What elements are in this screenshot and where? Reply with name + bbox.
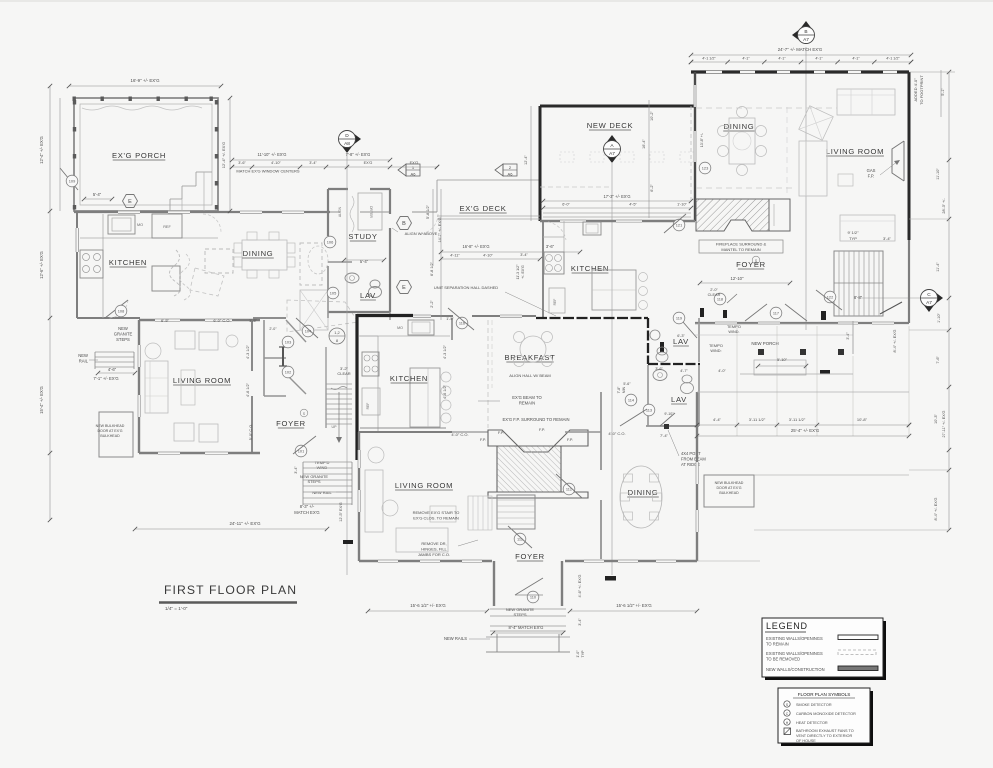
svg-text:CARBON MONOXIDE DETECTOR: CARBON MONOXIDE DETECTOR	[796, 712, 856, 716]
svg-text:F.P.: F.P.	[567, 438, 573, 442]
new wall: kitchen right top	[536, 317, 648, 319]
svg-text:NEW PORCH: NEW PORCH	[751, 341, 778, 346]
svg-text:4'-11": 4'-11"	[450, 254, 460, 258]
vertical dims mid	[432, 189, 434, 266]
svg-text:JAMBS FOR C.O.: JAMBS FOR C.O.	[418, 552, 450, 557]
middle lav upper	[650, 330, 660, 340]
svg-text:D: D	[345, 133, 349, 139]
dim porch top	[69, 85, 221, 87]
svg-text:15'-4" +/- EX'G: 15'-4" +/- EX'G	[39, 386, 44, 414]
svg-text:OF HOUSE: OF HOUSE	[796, 739, 816, 743]
floor plan symbols box	[781, 691, 873, 746]
svg-text:6'-2": 6'-2"	[650, 184, 654, 192]
wall: bottom house top	[359, 431, 452, 433]
wall: bottom house east	[696, 392, 698, 561]
svg-text:2'-0": 2'-0"	[269, 327, 277, 331]
svg-text:11'-10": 11'-10"	[936, 168, 940, 180]
porch steps SE corner	[169, 199, 171, 212]
svg-text:A8: A8	[344, 141, 350, 147]
svg-text:REMOVE DR,: REMOVE DR,	[421, 541, 446, 546]
svg-text:REF: REF	[366, 403, 370, 410]
svg-text:3'-6": 3'-6"	[238, 161, 246, 165]
svg-text:DINING: DINING	[243, 249, 274, 258]
wall: bottom house west	[358, 432, 360, 561]
dims above north wall	[232, 159, 390, 161]
svg-text:MIN: MIN	[622, 386, 626, 393]
svg-text:A7: A7	[803, 37, 809, 43]
svg-text:103: 103	[285, 340, 292, 345]
svg-text:EXISTING WALLS/OPENINGS: EXISTING WALLS/OPENINGS	[766, 636, 823, 641]
svg-text:LEGEND: LEGEND	[766, 621, 808, 631]
dims exg deck	[441, 251, 580, 253]
svg-text:12'-4": 12'-4"	[524, 155, 528, 165]
dim right of porch	[229, 98, 231, 211]
svg-text:NEW BULKHEAD: NEW BULKHEAD	[96, 424, 125, 428]
svg-text:5'-10": 5'-10"	[777, 357, 788, 362]
svg-text:REMOVE EX'G STAIR TO: REMOVE EX'G STAIR TO	[413, 510, 460, 515]
svg-text:REMAIN: REMAIN	[519, 401, 535, 406]
svg-text:4'-0": 4'-0"	[718, 369, 726, 373]
svg-text:3'-11 1/2": 3'-11 1/2"	[789, 417, 806, 422]
svg-text:117: 117	[773, 311, 779, 316]
svg-text:BREAKFAST: BREAKFAST	[504, 353, 555, 362]
svg-text:STEPS: STEPS	[513, 612, 526, 617]
svg-text:EX'G DECK: EX'G DECK	[460, 204, 507, 213]
svg-text:8'-4" +/- EX'G: 8'-4" +/- EX'G	[934, 497, 938, 520]
svg-text:TYP: TYP	[849, 236, 857, 241]
svg-text:3'-4": 3'-4"	[846, 332, 850, 340]
svg-text:REF: REF	[163, 225, 171, 229]
dims at entry	[368, 610, 487, 612]
svg-text:8'-8": 8'-8"	[854, 295, 863, 300]
svg-text:BULKHEAD: BULKHEAD	[100, 434, 120, 438]
svg-text:123: 123	[702, 166, 709, 171]
room LIVING ROOM left	[139, 319, 260, 321]
circle 1,2/8	[329, 328, 345, 344]
entry foyer bump	[493, 561, 495, 606]
svg-text:3'-4": 3'-4"	[578, 618, 582, 626]
flag 2/A6	[495, 164, 503, 176]
svg-text:10'-3": 10'-3"	[934, 414, 938, 424]
right mid extension lines	[697, 391, 909, 393]
svg-text:112: 112	[566, 487, 572, 492]
extension lines for dim chain	[736, 326, 738, 436]
svg-text:BATHROOM EXHAUST FANS TO: BATHROOM EXHAUST FANS TO	[796, 729, 854, 733]
svg-text:8'-4" MATCH EX'G: 8'-4" MATCH EX'G	[509, 625, 544, 630]
svg-text:NEW: NEW	[78, 353, 88, 358]
svg-text:5'-8 1/2": 5'-8 1/2"	[426, 204, 430, 219]
new wall: lav block	[647, 318, 649, 364]
door swing arcs dashed	[203, 214, 221, 232]
svg-text:CLEAR: CLEAR	[337, 371, 350, 376]
wall: main north wall	[74, 211, 330, 213]
svg-text:11'-4": 11'-4"	[936, 262, 940, 272]
svg-text:BULKHEAD: BULKHEAD	[719, 491, 739, 495]
stairs to remain dashed	[467, 496, 469, 530]
legend box	[765, 621, 886, 680]
wall: foyer-dining divider	[600, 392, 602, 470]
circle 116	[456, 317, 468, 329]
svg-text:3'-4": 3'-4"	[883, 236, 892, 241]
svg-text:MANTEL TO REMAIN: MANTEL TO REMAIN	[721, 247, 760, 252]
svg-text:108: 108	[118, 309, 125, 314]
svg-text:4'-1 1/2": 4'-1 1/2"	[702, 57, 716, 61]
fireplace right	[696, 199, 769, 231]
svg-text:B: B	[804, 29, 807, 35]
svg-text:4'-6 1/2": 4'-6 1/2"	[443, 384, 447, 399]
svg-text:RAIL: RAIL	[79, 359, 89, 364]
fridge	[362, 388, 380, 415]
svg-text:KITCHEN: KITCHEN	[390, 374, 428, 383]
bulkhead right	[704, 475, 754, 507]
svg-text:109: 109	[69, 179, 76, 184]
svg-text:DOOR AT EX'G: DOOR AT EX'G	[97, 429, 122, 433]
svg-text:6'-8 1/2": 6'-8 1/2"	[430, 261, 434, 276]
svg-text:4'-1": 4'-1"	[815, 57, 823, 61]
svg-text:UNIT SEPARATION HALL DASHED: UNIT SEPARATION HALL DASHED	[434, 285, 498, 290]
closet door panels	[282, 347, 284, 366]
room KITCHEN left	[76, 212, 78, 318]
svg-text:10'-8": 10'-8"	[857, 417, 868, 422]
svg-text:TEMP'D: TEMP'D	[727, 325, 741, 329]
svg-text:TO REMAIN: TO REMAIN	[766, 642, 789, 647]
range middle	[362, 352, 379, 376]
svg-text:MO: MO	[137, 223, 143, 227]
wall: right house north	[691, 70, 909, 73]
fridge REF	[152, 214, 182, 238]
svg-text:5'-1": 5'-1"	[941, 88, 945, 96]
hex markers	[123, 195, 138, 208]
svg-text:1'-5": 1'-5"	[249, 318, 258, 323]
svg-text:3'-6": 3'-6"	[546, 244, 555, 249]
svg-text:A6: A6	[508, 172, 514, 177]
fireplace bottom	[488, 430, 588, 498]
middle lav lower	[647, 365, 649, 426]
svg-text:WIND:: WIND:	[710, 349, 721, 353]
room KITCHEN middle	[359, 431, 377, 433]
svg-text:3'-11 1/2": 3'-11 1/2"	[749, 417, 766, 422]
svg-text:TO FOOTPRINT: TO FOOTPRINT	[919, 75, 924, 105]
room STUDY	[328, 188, 348, 190]
svg-text:16'-4": 16'-4"	[642, 139, 646, 149]
svg-text:C: C	[927, 292, 931, 298]
svg-text:12'-4" +/- EX'G: 12'-4" +/- EX'G	[39, 136, 44, 164]
svg-text:LIVING ROOM: LIVING ROOM	[395, 481, 453, 490]
svg-text:7'-6": 7'-6"	[936, 356, 940, 364]
svg-text:F.P.: F.P.	[539, 428, 545, 432]
svg-text:6'-0" C.O.: 6'-0" C.O.	[213, 318, 230, 323]
svg-text:12'-10": 12'-10"	[731, 276, 745, 281]
bulkhead left	[99, 412, 133, 457]
angled walls foyer	[286, 320, 306, 342]
svg-text:VENT DIRECTLY TO EXTERIOR: VENT DIRECTLY TO EXTERIOR	[796, 734, 852, 738]
furniture left living room	[145, 361, 168, 413]
section line C	[923, 304, 935, 312]
svg-text:5'-4": 5'-4"	[93, 192, 102, 197]
svg-text:10'-2": 10'-2"	[650, 111, 654, 121]
svg-text:4'-1": 4'-1"	[852, 57, 860, 61]
svg-text:HINGES, FILL: HINGES, FILL	[421, 547, 447, 552]
closets left of stairs	[253, 317, 286, 319]
svg-text:NEW DECK: NEW DECK	[587, 121, 634, 130]
wall: right house west	[694, 72, 696, 221]
svg-text:1'-0": 1'-0"	[576, 650, 580, 658]
svg-text:WIND: WIND	[317, 465, 328, 470]
svg-text:FOYER: FOYER	[276, 419, 306, 428]
doors bottom house	[563, 483, 575, 495]
svg-text:GAS: GAS	[867, 168, 876, 173]
svg-text:4'-0" C.O.: 4'-0" C.O.	[608, 431, 625, 436]
dims below right house	[697, 424, 909, 426]
svg-text:4'-10": 4'-10"	[483, 254, 493, 258]
door 108	[105, 300, 128, 318]
svg-text:15'-6 1/2" +/- EX'G: 15'-6 1/2" +/- EX'G	[410, 603, 446, 608]
svg-text:E: E	[402, 285, 406, 291]
svg-text:EXISTING WALLS/OPENINGS: EXISTING WALLS/OPENINGS	[766, 651, 823, 656]
svg-text:REF: REF	[553, 299, 557, 306]
svg-text:4'-3 1/2": 4'-3 1/2"	[443, 344, 447, 359]
svg-text:NEW RAIL: NEW RAIL	[312, 490, 332, 495]
svg-text:102: 102	[285, 370, 292, 375]
svg-text:3'-4": 3'-4"	[294, 466, 298, 474]
svg-text:FROM BEAM: FROM BEAM	[681, 457, 706, 462]
svg-text:17'-3" +/- EX'G: 17'-3" +/- EX'G	[603, 194, 630, 199]
svg-text:15'-6 1/2" +/- EX'G: 15'-6 1/2" +/- EX'G	[616, 603, 652, 608]
svg-text:LIVING ROOM: LIVING ROOM	[826, 147, 884, 156]
svg-text:F.P.: F.P.	[498, 431, 504, 435]
svg-text:7'-1" +/- EX'G: 7'-1" +/- EX'G	[93, 376, 118, 381]
svg-text:4'-0" C.O.: 4'-0" C.O.	[451, 432, 468, 437]
right edge dims	[948, 72, 950, 530]
svg-text:4'-6" +/- EX'G: 4'-6" +/- EX'G	[578, 574, 582, 597]
svg-text:11'-3 1/2": 11'-3 1/2"	[516, 264, 520, 280]
svg-text:STUDY: STUDY	[348, 232, 377, 241]
flag 1/A6	[398, 164, 406, 176]
svg-text:F.P.: F.P.	[868, 174, 875, 179]
closet center	[497, 495, 535, 529]
svg-text:13'-8" +/-: 13'-8" +/-	[700, 132, 704, 147]
svg-text:4'-3 1/2": 4'-3 1/2"	[246, 344, 250, 359]
left stairs	[325, 347, 327, 428]
svg-text:11'-10" +/- EX'G: 11'-10" +/- EX'G	[258, 152, 287, 157]
svg-text:113: 113	[646, 408, 652, 413]
dashed existing features to be removed	[205, 249, 233, 273]
gas fp bump	[892, 141, 904, 181]
wall: right kitchen north	[540, 220, 695, 222]
svg-text:4'-5": 4'-5"	[629, 203, 637, 207]
svg-text:1'-10": 1'-10"	[937, 313, 941, 323]
svg-text:6'-0": 6'-0"	[562, 203, 570, 207]
svg-text:EX'G: EX'G	[410, 161, 419, 165]
svg-text:5'-6": 5'-6"	[623, 382, 631, 386]
svg-text:NEW BULKHEAD: NEW BULKHEAD	[715, 481, 744, 485]
svg-text:MATCH EX'G WINDOW CENTERS: MATCH EX'G WINDOW CENTERS	[236, 169, 299, 174]
wall: right house south	[695, 322, 909, 324]
room EX G PORCH	[74, 98, 218, 211]
svg-text:WIND.: WIND.	[728, 330, 739, 334]
svg-text:DOOR AT EX'G: DOOR AT EX'G	[716, 486, 741, 490]
new wall: unit separation horizontal	[357, 314, 413, 317]
dark jamb marks	[700, 308, 704, 317]
svg-text:24'-11" +/- EX'G: 24'-11" +/- EX'G	[229, 521, 261, 526]
svg-text:114: 114	[628, 398, 635, 403]
svg-text:NEW WALLS/CONSTRUCTION: NEW WALLS/CONSTRUCTION	[766, 667, 825, 672]
svg-text:LAV: LAV	[360, 291, 376, 300]
room DINING left	[242, 240, 287, 270]
svg-text:118: 118	[717, 297, 723, 302]
svg-text:TYP: TYP	[581, 650, 585, 658]
svg-text:106: 106	[327, 240, 334, 245]
svg-text:8'-3" +/-: 8'-3" +/-	[300, 504, 315, 509]
svg-text:ADDED 4'-0": ADDED 4'-0"	[913, 78, 918, 102]
svg-text:ALIGN HALL W/ BEAM: ALIGN HALL W/ BEAM	[509, 373, 550, 378]
stairs right	[834, 251, 883, 316]
svg-text:7'-8": 7'-8"	[617, 386, 621, 394]
svg-text:4'-7": 4'-7"	[680, 369, 688, 373]
svg-text:3'-6": 3'-6"	[655, 367, 663, 371]
svg-text:+/- EX'G: +/- EX'G	[521, 265, 525, 279]
svg-text:105: 105	[330, 291, 337, 296]
svg-text:LIVING ROOM: LIVING ROOM	[173, 376, 231, 385]
svg-text:1'-10": 1'-10"	[677, 203, 687, 207]
svg-text:7'-4": 7'-4"	[660, 433, 669, 438]
svg-text:16'-9" +/- EX'G: 16'-9" +/- EX'G	[131, 78, 161, 83]
svg-text:2'-2": 2'-2"	[430, 300, 434, 308]
svg-text:KITCHEN: KITCHEN	[571, 264, 609, 273]
svg-text:7'-8" +/- EX'G: 7'-8" +/- EX'G	[346, 152, 371, 157]
svg-text:119: 119	[676, 316, 682, 321]
island right	[592, 270, 636, 310]
svg-text:TEMP'D: TEMP'D	[709, 344, 723, 348]
door 109	[60, 168, 78, 190]
svg-text:28'-3" +/-: 28'-3" +/-	[942, 198, 946, 214]
svg-text:ALIGN W/ ABOVE: ALIGN W/ ABOVE	[405, 231, 438, 236]
new wall: unit separation vertical	[355, 314, 358, 460]
svg-text:UP: UP	[332, 425, 338, 429]
svg-text:25'-4" +/- EX'G: 25'-4" +/- EX'G	[791, 428, 820, 433]
room LAV center	[327, 266, 329, 296]
section line B	[800, 21, 812, 29]
svg-text:SMOKE DETECTOR: SMOKE DETECTOR	[796, 703, 832, 707]
svg-text:12'-4" +/- EX'G: 12'-4" +/- EX'G	[221, 142, 226, 168]
dim right house top	[691, 54, 911, 56]
island	[410, 368, 440, 427]
svg-text:KITCHEN: KITCHEN	[109, 258, 147, 267]
room EX G DECK	[437, 179, 540, 181]
room NEW DECK	[540, 105, 695, 108]
svg-text:GRANITE: GRANITE	[114, 332, 133, 337]
svg-text:MATCH EX'G: MATCH EX'G	[294, 510, 319, 515]
svg-text:4'-1 1/2": 4'-1 1/2"	[886, 57, 900, 61]
svg-text:EX'G CLOS. TO REMAIN: EX'G CLOS. TO REMAIN	[413, 516, 459, 521]
svg-text:121: 121	[676, 223, 683, 228]
svg-text:4'-6 1/2": 4'-6 1/2"	[246, 382, 250, 397]
svg-text:A6: A6	[411, 172, 417, 177]
svg-text:2'-0": 2'-0"	[710, 288, 718, 292]
svg-text:F.P.: F.P.	[480, 438, 486, 442]
fridge right	[549, 288, 565, 313]
svg-text:4'-1": 4'-1"	[742, 57, 750, 61]
svg-text:E: E	[128, 199, 132, 205]
dims left bottom	[135, 528, 327, 530]
svg-text:STEPS: STEPS	[116, 337, 130, 342]
dark tick bottom	[605, 576, 616, 581]
svg-text:LAV: LAV	[673, 337, 689, 346]
svg-text:9' 1/2": 9' 1/2"	[847, 230, 859, 235]
svg-text:S: S	[303, 412, 305, 416]
svg-text:FIRST FLOOR PLAN: FIRST FLOOR PLAN	[164, 583, 297, 597]
svg-text:6'-3": 6'-3"	[677, 334, 685, 338]
svg-text:EX'G: EX'G	[364, 161, 373, 165]
svg-text:4'-6": 4'-6"	[108, 367, 117, 372]
svg-text:NEW RAILS: NEW RAILS	[444, 636, 467, 641]
svg-text:CLEAR: CLEAR	[708, 293, 721, 297]
svg-text:NEW: NEW	[118, 326, 128, 331]
range	[80, 250, 103, 278]
svg-text:FLOOR PLAN SYMBOLS: FLOOR PLAN SYMBOLS	[798, 692, 851, 697]
svg-text:B: B	[402, 221, 406, 227]
section line A	[606, 135, 618, 143]
dim left column	[49, 86, 51, 520]
porch dark tick	[820, 370, 830, 374]
svg-text:4'-1": 4'-1"	[778, 57, 786, 61]
svg-text:12'-5" EX'G: 12'-5" EX'G	[339, 502, 343, 522]
svg-text:A7: A7	[609, 151, 615, 157]
svg-text:MO: MO	[397, 326, 403, 330]
svg-text:27'-11" +/- EX'G: 27'-11" +/- EX'G	[942, 411, 946, 438]
svg-text:A7: A7	[926, 300, 932, 306]
svg-text:24'-7" +/- MATCH EX'G: 24'-7" +/- MATCH EX'G	[778, 47, 823, 52]
svg-text:EX'G F.P. SURROUND TO REMAIN: EX'G F.P. SURROUND TO REMAIN	[502, 417, 569, 422]
svg-text:LAV: LAV	[671, 395, 687, 404]
svg-text:EX'G PORCH: EX'G PORCH	[112, 151, 166, 160]
svg-text:HEAT DETECTOR: HEAT DETECTOR	[796, 721, 828, 725]
steps below left foyer	[303, 461, 352, 463]
svg-text:FOYER: FOYER	[515, 552, 545, 561]
svg-text:1/4" = 1'-0": 1/4" = 1'-0"	[165, 606, 188, 611]
svg-text:TO BE REMOVED: TO BE REMOVED	[766, 657, 800, 662]
svg-text:EX'G BEAM TO: EX'G BEAM TO	[512, 395, 542, 400]
svg-text:3'-4": 3'-4"	[520, 253, 528, 257]
dining west wall	[690, 106, 692, 200]
range right	[544, 252, 564, 274]
svg-text:ALIGN: ALIGN	[338, 206, 342, 217]
svg-text:4'-4": 4'-4"	[713, 417, 722, 422]
svg-text:1'-5": 1'-5"	[446, 317, 454, 321]
svg-text:1,2: 1,2	[334, 330, 340, 335]
svg-text:14'-7" +/- EX'G: 14'-7" +/- EX'G	[438, 217, 442, 242]
svg-text:6'-5": 6'-5"	[161, 318, 170, 323]
svg-text:3'-4": 3'-4"	[309, 161, 317, 165]
svg-text:FIREPLACE SURROUND &: FIREPLACE SURROUND &	[716, 242, 767, 247]
left steps	[95, 351, 134, 353]
svg-text:16'-8" +/- EX'G: 16'-8" +/- EX'G	[462, 244, 489, 249]
wall: right house east	[908, 72, 911, 240]
svg-text:12'-6" +/- EX'G: 12'-6" +/- EX'G	[39, 251, 44, 279]
svg-text:4'-10": 4'-10"	[271, 161, 281, 165]
section line D	[353, 133, 361, 145]
svg-text:DRYER: DRYER	[369, 206, 373, 218]
svg-text:5'-0" C.O.: 5'-0" C.O.	[249, 424, 253, 440]
svg-text:FOYER: FOYER	[736, 260, 766, 269]
svg-text:8'-4" +/- EX'G: 8'-4" +/- EX'G	[893, 329, 897, 352]
svg-text:DINING: DINING	[628, 488, 659, 497]
wall: bottom house south	[359, 560, 492, 562]
circles right	[673, 219, 685, 231]
